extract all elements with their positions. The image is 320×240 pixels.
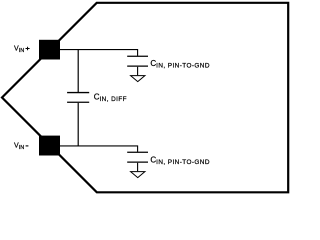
wire VIN- to bottom cap <box>60 146 138 152</box>
device outline U1 <box>2 3 288 193</box>
svg-text:CIN, DIFF: CIN, DIFF <box>94 93 127 104</box>
capacitor CIN,DIFF <box>67 93 89 103</box>
pin pad VIN+ <box>39 40 60 60</box>
wire VIN+ branch to CIN,DIFF <box>77 50 79 92</box>
wire top cap to ground <box>137 67 139 75</box>
svg-text:CIN, PIN-TO-GND: CIN, PIN-TO-GND <box>150 59 209 70</box>
pin pad VIN- <box>39 136 60 156</box>
svg-text:VIN: VIN <box>14 46 24 55</box>
svg-text:CIN, PIN-TO-GND: CIN, PIN-TO-GND <box>150 156 209 167</box>
wire VIN+ to top cap <box>60 50 138 56</box>
svg-text:VIN: VIN <box>14 143 24 152</box>
ground top <box>131 76 145 82</box>
ground bottom <box>131 172 145 178</box>
capacitor CIN,PIN-TO-GND bottom <box>127 152 148 162</box>
capacitor CIN,PIN-TO-GND top <box>127 56 148 66</box>
wire CIN,DIFF to VIN- wire <box>77 103 79 146</box>
wire bottom cap to ground <box>137 163 139 171</box>
